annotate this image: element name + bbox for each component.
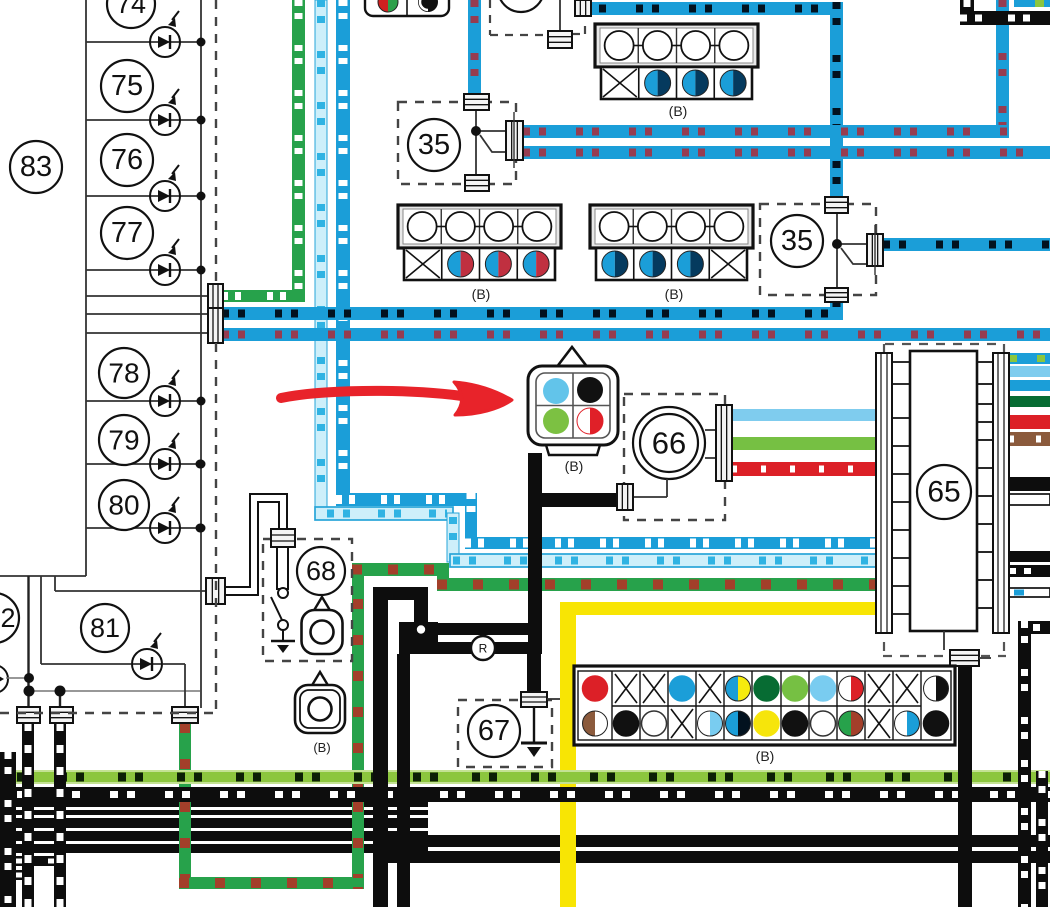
wire black-white top right	[960, 0, 974, 25]
wires right of 65	[1009, 353, 1050, 364]
relay 35 #1	[398, 102, 516, 184]
svg-text:(B): (B)	[313, 740, 330, 755]
svg-text:67: 67	[478, 715, 510, 747]
red annotation arrow	[281, 391, 462, 398]
circle 81 + LED	[81, 604, 129, 652]
ground 67	[533, 707, 535, 742]
wire black-white far left	[0, 752, 16, 907]
black-white tail wires	[22, 723, 34, 907]
dashed box top	[490, 0, 586, 35]
svg-text:65: 65	[927, 476, 960, 509]
wire black-white right corner	[1018, 621, 1050, 634]
sensor connector 4-dot	[556, 347, 588, 368]
svg-text:R: R	[479, 642, 488, 656]
wire A blue-black top	[583, 2, 843, 15]
wire E blue-black	[222, 307, 843, 320]
wires B C blue-red	[996, 0, 1009, 138]
svg-text:80: 80	[108, 490, 139, 521]
wire green GY vertical left	[292, 0, 305, 291]
top rounded connector with dots	[365, 0, 449, 16]
horn switch 68	[263, 539, 352, 661]
svg-text:74: 74	[116, 0, 146, 19]
row number circles	[107, 0, 155, 28]
wire blue stub top corner	[1014, 0, 1050, 7]
bus black-white	[0, 787, 1050, 802]
svg-text:81: 81	[90, 613, 120, 643]
cluster right connectors	[208, 284, 223, 309]
wire light blue 66-65	[732, 409, 876, 421]
wire F blue-red	[222, 328, 1050, 341]
switch 66	[624, 394, 725, 520]
cluster tail lines	[27, 576, 29, 707]
instrument cluster box 83	[0, 0, 208, 708]
svg-text:35: 35	[418, 129, 450, 161]
connector block B1 top	[595, 24, 758, 99]
connector block B3 mid-right	[590, 205, 753, 280]
svg-text:(B): (B)	[669, 103, 688, 119]
connector strip B bottom	[574, 666, 955, 745]
connector 65	[883, 344, 1006, 656]
svg-text:(B): (B)	[756, 748, 775, 764]
bus light green	[0, 770, 1050, 784]
dashed panel boundary	[0, 0, 216, 713]
svg-text:(B): (B)	[665, 286, 684, 302]
overdraw crossing verticals	[560, 802, 576, 907]
wire pale blue elbow to 65	[315, 507, 453, 520]
relay 35 #2	[760, 204, 876, 295]
wire green-red loop	[179, 723, 191, 889]
horn 2	[311, 672, 329, 687]
svg-text:75: 75	[111, 70, 143, 102]
svg-text:(B): (B)	[565, 458, 584, 474]
wire blue vertical	[336, 0, 350, 500]
wire yellow	[560, 602, 876, 615]
black wire from 65 bottom	[958, 664, 972, 907]
svg-text:66: 66	[652, 426, 686, 461]
wire pale blue vertical	[315, 0, 327, 514]
svg-text:78: 78	[108, 358, 139, 389]
black wire structure	[373, 587, 388, 907]
svg-text:79: 79	[108, 425, 139, 456]
svg-text:83: 83	[20, 151, 52, 183]
svg-text:68: 68	[306, 556, 336, 586]
svg-text:(B): (B)	[472, 286, 491, 302]
svg-text:76: 76	[111, 144, 143, 176]
white wire U	[225, 498, 283, 591]
svg-text:2: 2	[0, 603, 15, 633]
svg-text:77: 77	[111, 217, 143, 249]
wire red-white 66-65	[732, 462, 876, 476]
wire green 66-65	[732, 437, 876, 450]
top partial circle	[498, 0, 544, 12]
ground 67	[458, 700, 552, 767]
circle 83	[10, 141, 62, 193]
bus black lines left	[0, 802, 428, 807]
wire black-white right edge2	[1036, 771, 1048, 907]
cluster LEDs	[150, 11, 180, 57]
bus black right pair	[374, 835, 1050, 847]
wire blue elbow to 65	[336, 493, 477, 506]
connector under top circle	[548, 31, 572, 48]
connectors bottom left	[17, 707, 40, 723]
connector wire A left end	[575, 0, 591, 16]
svg-text:35: 35	[781, 225, 813, 257]
wire D blue-black	[883, 238, 1050, 251]
circle 82 partial + LED	[0, 593, 19, 643]
horn 1	[313, 597, 331, 612]
black wire to 66	[540, 493, 617, 507]
joint R	[471, 636, 495, 660]
connector block B2 mid-left	[398, 205, 561, 280]
